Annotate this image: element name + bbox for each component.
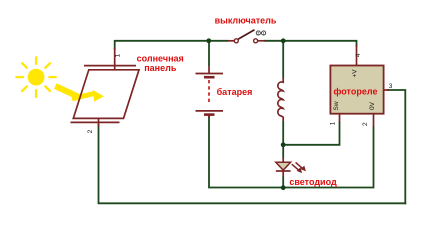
junction at battery top <box>206 38 211 43</box>
svg-text:0V: 0V <box>369 101 376 110</box>
LED anode pin <box>282 158 284 162</box>
photorelay pin1 stub <box>339 114 341 122</box>
solar panel <box>71 48 140 126</box>
LED cathode pin <box>282 171 284 177</box>
wire: photorelay pin3 to right rail <box>388 90 405 203</box>
svg-text:1: 1 <box>263 32 265 36</box>
switch lever <box>238 30 255 39</box>
svg-text:2: 2 <box>257 32 259 36</box>
LED cathode bar <box>276 170 291 172</box>
svg-text:Sw: Sw <box>333 101 340 110</box>
svg-text:светодиод: светодиод <box>289 177 337 187</box>
sun <box>16 57 55 96</box>
svg-text:1: 1 <box>330 121 337 125</box>
svg-text:2: 2 <box>362 122 369 126</box>
wire: coil bottom to LED junction <box>282 121 284 145</box>
light ray arrow <box>54 83 104 101</box>
photorelay box <box>330 66 383 114</box>
svg-text:батарея: батарея <box>217 87 253 97</box>
wire: coil branch upper <box>282 41 284 78</box>
svg-text:+V: +V <box>352 69 359 78</box>
LED light arrows <box>292 162 306 173</box>
wire: battery top stub <box>208 41 210 66</box>
relay coil (inductor) <box>278 78 283 121</box>
photorelay pin2 stub <box>373 114 375 127</box>
svg-text:панель: панель <box>144 63 177 73</box>
wire: negative rail to photorelay pin2 <box>283 127 373 188</box>
svg-text:фотореле: фотореле <box>334 87 378 97</box>
switch circled pin 1 <box>262 31 266 35</box>
switch circled pin 2 <box>256 31 260 35</box>
svg-text:4: 4 <box>355 53 362 57</box>
wire: top rail, switch to photorelay pin4 <box>265 41 357 46</box>
wire: top rail, solar panel pin1 to switch <box>115 41 228 49</box>
wire: junction to photorelay pin1 <box>283 122 339 145</box>
photorelay pin3 stub <box>384 89 389 91</box>
battery cell divider (dashed) <box>208 80 210 103</box>
switch contact left <box>234 39 238 43</box>
switch contact right <box>254 39 258 43</box>
junction coil/LED/pin1 <box>281 142 286 147</box>
wire: junction to LED anode <box>282 145 284 158</box>
LED triangle <box>276 162 291 170</box>
switch <box>228 40 266 42</box>
svg-text:выключатель: выключатель <box>215 15 277 25</box>
wire: LED cathode down <box>282 177 284 189</box>
svg-text:1: 1 <box>115 53 122 57</box>
battery <box>196 66 224 118</box>
photorelay pin4 stub <box>356 45 358 66</box>
junction LED cathode / negative rail <box>281 185 286 190</box>
svg-text:2: 2 <box>87 129 94 133</box>
wire: bottom rail to solar panel pin2 <box>99 125 406 203</box>
svg-text:3: 3 <box>389 83 393 90</box>
junction at coil top <box>281 38 286 43</box>
wire: battery bottom to negative rail <box>209 116 283 188</box>
